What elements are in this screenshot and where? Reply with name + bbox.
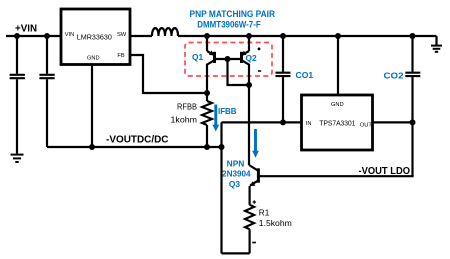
polarity mark + (Q2) <box>258 48 261 51</box>
IC U2 TPS7A3301 LDO <box>302 95 373 150</box>
wire vertical down to bottom return <box>220 122 222 253</box>
svg-text:CO1: CO1 <box>296 70 314 80</box>
polarity mark - (R1) <box>252 242 256 244</box>
transistor Q2 (PNP) <box>241 36 249 165</box>
node CO2 top on rail <box>410 33 416 39</box>
node RFBB bottom junction <box>204 144 210 150</box>
ground (left) <box>11 155 24 162</box>
wire right vertical OUT down to Q3 base rail <box>411 122 413 176</box>
wire base to Q2 collector (diode connection) <box>228 59 250 85</box>
node FB / Q1 collector / RFBB <box>204 90 210 96</box>
wire OUT to right vertical <box>373 121 413 123</box>
svg-text:1.5kohm: 1.5kohm <box>259 219 292 228</box>
node base link junction <box>225 56 231 62</box>
node input cap 2 junction <box>44 33 50 39</box>
svg-text:VIN: VIN <box>65 32 74 38</box>
capacitor Cin2 <box>39 36 54 147</box>
svg-text:Q2: Q2 <box>246 53 258 63</box>
wire LMR GND pin down to -VOUTDC/DC rail <box>91 65 93 148</box>
dashed matched-pair outline <box>185 43 272 77</box>
svg-text:LMR33630: LMR33630 <box>77 32 112 41</box>
wire top rail to right ground <box>178 35 437 37</box>
node Q1 emitter on top rail <box>204 33 210 39</box>
capacitor CO2 <box>405 36 420 122</box>
svg-text:GND: GND <box>87 56 100 62</box>
svg-text:TPS7A3301: TPS7A3301 <box>319 119 355 128</box>
polarity mark - (Q2) <box>258 70 261 72</box>
svg-text:NPN: NPN <box>227 158 245 168</box>
wire rail up and right to LDO IN <box>222 121 302 123</box>
node TPS GND top rail junction <box>335 33 341 39</box>
wire SW output <box>130 35 152 37</box>
capacitor Cin1 <box>10 36 25 154</box>
svg-text:RFBB: RFBB <box>177 103 197 112</box>
node Q2 emitter on top rail <box>246 33 252 39</box>
current arrow (Q3 collector) <box>252 129 259 158</box>
svg-text:+VIN: +VIN <box>15 23 37 34</box>
wire TPS GND pin <box>337 36 339 95</box>
node CO1 bottom junction <box>280 119 286 125</box>
svg-text:DMMT3906W-7-F: DMMT3906W-7-F <box>197 20 261 30</box>
current arrow IFBB <box>212 105 219 132</box>
svg-text:FB: FB <box>117 53 124 59</box>
wire FB to Q1 collector node <box>130 55 207 93</box>
svg-text:-VOUTDC/DC: -VOUTDC/DC <box>106 134 169 145</box>
node LMR GND junction <box>89 144 95 150</box>
inductor L1 <box>152 28 178 36</box>
polarity mark + (R1) <box>253 200 256 203</box>
node input cap 1 junction <box>14 33 20 39</box>
transistor Q3 (NPN 2N3904) <box>249 165 258 205</box>
transistor Q1 (PNP) <box>207 36 215 93</box>
svg-text:R1: R1 <box>259 209 270 218</box>
svg-text:IN: IN <box>306 121 312 127</box>
wire Q3 base rail (-VOUT LDO) <box>260 175 414 177</box>
svg-text:SW: SW <box>117 32 127 38</box>
svg-text:PNP MATCHING PAIR: PNP MATCHING PAIR <box>190 9 276 19</box>
wire +VIN input rail <box>6 35 61 37</box>
resistor R1 1.5kohm <box>245 205 254 254</box>
svg-text:OUT: OUT <box>360 122 373 128</box>
wire base link Q1-Q2 <box>215 58 242 60</box>
wire -VOUTDC/DC rail <box>47 146 222 148</box>
wire bottom return to R1 <box>222 252 250 254</box>
svg-text:Q3: Q3 <box>229 179 241 189</box>
svg-text:Q1: Q1 <box>192 52 204 62</box>
svg-text:1kohm: 1kohm <box>171 116 198 125</box>
node Q2 collector-base tie <box>246 82 252 88</box>
IC U1 LMR33630 buck converter <box>61 9 130 65</box>
svg-text:2N3904: 2N3904 <box>222 169 251 179</box>
svg-text:CO2: CO2 <box>384 71 404 81</box>
svg-text:-VOUT LDO: -VOUT LDO <box>359 166 411 177</box>
resistor RFBB 1kohm <box>202 93 212 147</box>
node rail to LDO IN junction <box>219 144 225 150</box>
node OUT junction <box>410 119 416 125</box>
svg-text:IFBB: IFBB <box>218 106 237 116</box>
node CO1 top on rail <box>280 33 286 39</box>
ground (top right) <box>431 36 442 52</box>
svg-text:GND: GND <box>331 102 344 108</box>
capacitor CO1 <box>276 36 291 122</box>
